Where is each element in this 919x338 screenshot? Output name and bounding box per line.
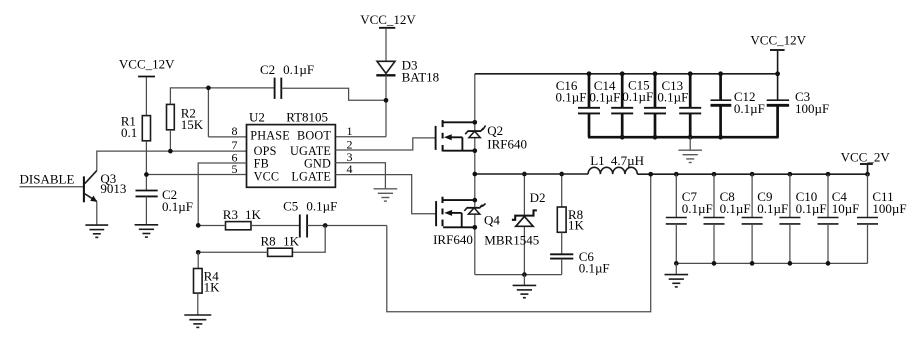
svg-text:R3: R3: [223, 207, 238, 222]
svg-text:1K: 1K: [283, 233, 300, 248]
capacitor C11: [857, 174, 907, 263]
svg-text:0.1µF: 0.1µF: [556, 90, 587, 105]
wire VCC 12V top rail: [475, 73, 778, 75]
svg-text:MBR1545: MBR1545: [484, 233, 539, 248]
svg-text:IRF640: IRF640: [487, 137, 527, 152]
junction Q2 drain: [472, 120, 477, 125]
svg-text:10µF: 10µF: [832, 201, 860, 216]
transistor Q4 IRF640: [433, 197, 500, 247]
wire pin8 drop: [207, 88, 209, 137]
svg-text:RT8105: RT8105: [286, 110, 328, 125]
capacitor C7: [666, 174, 713, 263]
junction C2/R2/pin8: [206, 86, 211, 91]
capacitor C5: [283, 199, 337, 238]
resistor R2: [167, 104, 204, 132]
junction FB/R8/R4: [196, 250, 201, 255]
svg-text:100µF: 100µF: [872, 201, 906, 216]
capacitor C4: [818, 174, 860, 263]
svg-text:0.1µF: 0.1µF: [283, 62, 314, 77]
svg-text:4: 4: [347, 162, 353, 176]
capacitor C2 (boot, top): [260, 62, 314, 99]
svg-text:BAT18: BAT18: [402, 69, 440, 84]
svg-text:VCC_12V: VCC_12V: [119, 56, 175, 71]
svg-text:100µF: 100µF: [795, 101, 829, 116]
svg-text:BOOT: BOOT: [297, 128, 331, 142]
capacitor C15: [622, 74, 666, 137]
svg-text:0.1: 0.1: [121, 125, 137, 140]
svg-text:8: 8: [232, 124, 238, 138]
resistor R4: [194, 269, 221, 295]
wire D3 cathode to BOOT pin1: [385, 75, 387, 137]
ground (Q3 emitter): [85, 225, 108, 237]
capacitor C9: [742, 174, 789, 263]
wire R1 bottom to VCC pin5 node and C2: [145, 141, 147, 191]
junction Q4 source: [472, 225, 477, 230]
diode D3 BAT18: [376, 58, 439, 85]
svg-text:Q4: Q4: [484, 213, 500, 228]
resistor R8 (feedback): [261, 233, 300, 256]
resistor R8 (bootstrap): [557, 174, 584, 233]
wire C2 bottom to ground: [145, 196, 147, 224]
svg-text:C5: C5: [283, 199, 298, 214]
capacitor C14: [589, 74, 633, 137]
svg-text:0.1µF: 0.1µF: [757, 201, 788, 216]
svg-text:0.1µF: 0.1µF: [734, 101, 765, 116]
junction D3/C2/BOOT: [384, 98, 389, 103]
wire phase rail to L1: [475, 173, 588, 175]
svg-text:L1: L1: [590, 153, 604, 168]
svg-text:0.1µF: 0.1µF: [306, 199, 337, 214]
resistor R1: [121, 114, 151, 141]
svg-text:R8: R8: [261, 233, 276, 248]
svg-text:0.1µF: 0.1µF: [622, 89, 653, 104]
wire Q3 emitter to ground: [96, 201, 98, 224]
wire UGATE pin2 to Q2 gate: [335, 138, 435, 150]
wire R2 top to C2/pin8 node: [170, 88, 274, 105]
svg-text:0.1µF: 0.1µF: [796, 201, 827, 216]
wire low-side source rail: [475, 274, 562, 276]
ground (D2 / low rail): [513, 275, 537, 298]
capacitor C12: [711, 74, 765, 137]
wire GND pin3: [335, 163, 385, 189]
transistor Q2 IRF640: [436, 120, 527, 152]
wire LGATE pin4 to Q4 gate: [335, 175, 436, 214]
svg-text:15K: 15K: [181, 117, 204, 132]
junction Q4 drain: [472, 198, 477, 203]
junction R8 top (phase rail): [559, 172, 564, 177]
inductor L1 4.7uH: [588, 153, 644, 174]
junction phase/main vertical: [472, 172, 477, 177]
junction dots top rail: [587, 71, 592, 76]
svg-text:U2: U2: [249, 110, 265, 125]
resistor R3: [223, 207, 262, 230]
wire output rail to ground: [675, 263, 677, 274]
node DISABLE: [20, 171, 75, 186]
svg-text:D2: D2: [530, 190, 546, 205]
op-amp U2 RT8105 controller box: [247, 110, 336, 188]
wire output bottom rail: [676, 262, 867, 264]
svg-text:0.1µF: 0.1µF: [657, 90, 688, 105]
svg-text:PHASE: PHASE: [250, 128, 290, 142]
junction dots output rail: [674, 172, 679, 177]
power flag VCC_12V (top middle): [360, 12, 416, 61]
capacitor C10: [779, 174, 826, 263]
ground (R4): [184, 315, 211, 327]
svg-text:0.1µF: 0.1µF: [162, 199, 193, 214]
svg-text:IRF640: IRF640: [433, 232, 473, 247]
wire FB pin6 to R3/R4 node: [198, 163, 246, 225]
diode D2 MBR1545: [484, 174, 545, 275]
wire Q3 collector to OPS pin7 net: [97, 151, 247, 171]
capacitor C16: [556, 74, 600, 137]
junction FB/R3/R4: [196, 223, 201, 228]
wire FB node down to R4: [197, 252, 199, 268]
junction feedback tap: [648, 172, 653, 177]
capacitor C6: [550, 232, 610, 275]
junction dots output bottom rail: [674, 261, 679, 266]
wire DISABLE to Q3 base: [20, 186, 84, 188]
junction D2 bottom: [522, 272, 527, 277]
svg-text:0.1µF: 0.1µF: [682, 201, 713, 216]
wire R8 left to FB node: [198, 251, 267, 253]
svg-text:VCC_2V: VCC_2V: [841, 149, 891, 164]
wire output rail VCC_2V: [637, 173, 867, 175]
svg-text:1: 1: [347, 124, 353, 138]
wire FB node to R3: [198, 225, 225, 227]
wire main switch vertical (VCC rail to low rail): [474, 74, 476, 275]
svg-text:LGATE: LGATE: [291, 169, 331, 183]
wire feedback long run to output: [387, 174, 651, 312]
svg-text:9013: 9013: [100, 181, 126, 196]
svg-text:1K: 1K: [568, 218, 585, 233]
svg-text:0.1µF: 0.1µF: [589, 90, 620, 105]
ground (pin3 GND): [374, 189, 398, 201]
capacitor C8: [704, 174, 751, 263]
svg-text:VCC_12V: VCC_12V: [360, 12, 416, 27]
wire R3 to C5: [251, 225, 300, 227]
ground (C2): [135, 225, 159, 237]
svg-text:C2: C2: [260, 62, 275, 77]
junction D2 top (phase rail): [522, 172, 527, 177]
power flag VCC_2V: [841, 149, 891, 174]
ground (cap bank): [678, 150, 702, 162]
svg-text:1K: 1K: [245, 207, 262, 222]
svg-text:0.1µF: 0.1µF: [579, 260, 610, 275]
junction dots bottom rail: [620, 135, 625, 140]
wire cap bank bottom rail: [588, 136, 779, 139]
svg-text:1K: 1K: [204, 280, 221, 295]
capacitor C2 (bypass at Q3): [136, 187, 193, 214]
svg-text:5: 5: [232, 162, 238, 176]
capacitor C3: [767, 74, 830, 137]
capacitor C13: [657, 74, 701, 137]
transistor Q3: [84, 171, 127, 203]
junction R2/OPS: [168, 149, 173, 154]
junction C5/R8: [323, 223, 328, 228]
wire bank rail to ground: [689, 137, 691, 150]
wire VCC pin5: [146, 174, 246, 176]
wire R4 to ground: [197, 293, 199, 315]
junction R1/VCC: [144, 172, 149, 177]
svg-text:4.7µH: 4.7µH: [611, 153, 644, 168]
svg-text:0.1µF: 0.1µF: [720, 201, 751, 216]
svg-text:VCC: VCC: [254, 169, 280, 183]
svg-text:VCC_12V: VCC_12V: [750, 33, 806, 48]
wire C5 right / feedback node: [307, 225, 387, 227]
power flag VCC_12V (top left): [119, 56, 175, 115]
junction Q2 source: [472, 148, 477, 153]
wire R2 bottom to OPS pin7 wire: [169, 130, 171, 151]
svg-text:DISABLE: DISABLE: [20, 171, 75, 186]
wire junction down to R8 row: [292, 226, 325, 253]
wire C2 right to D3 node: [281, 88, 386, 100]
power flag VCC_12V (top right): [750, 33, 806, 74]
ground (output): [665, 275, 689, 287]
